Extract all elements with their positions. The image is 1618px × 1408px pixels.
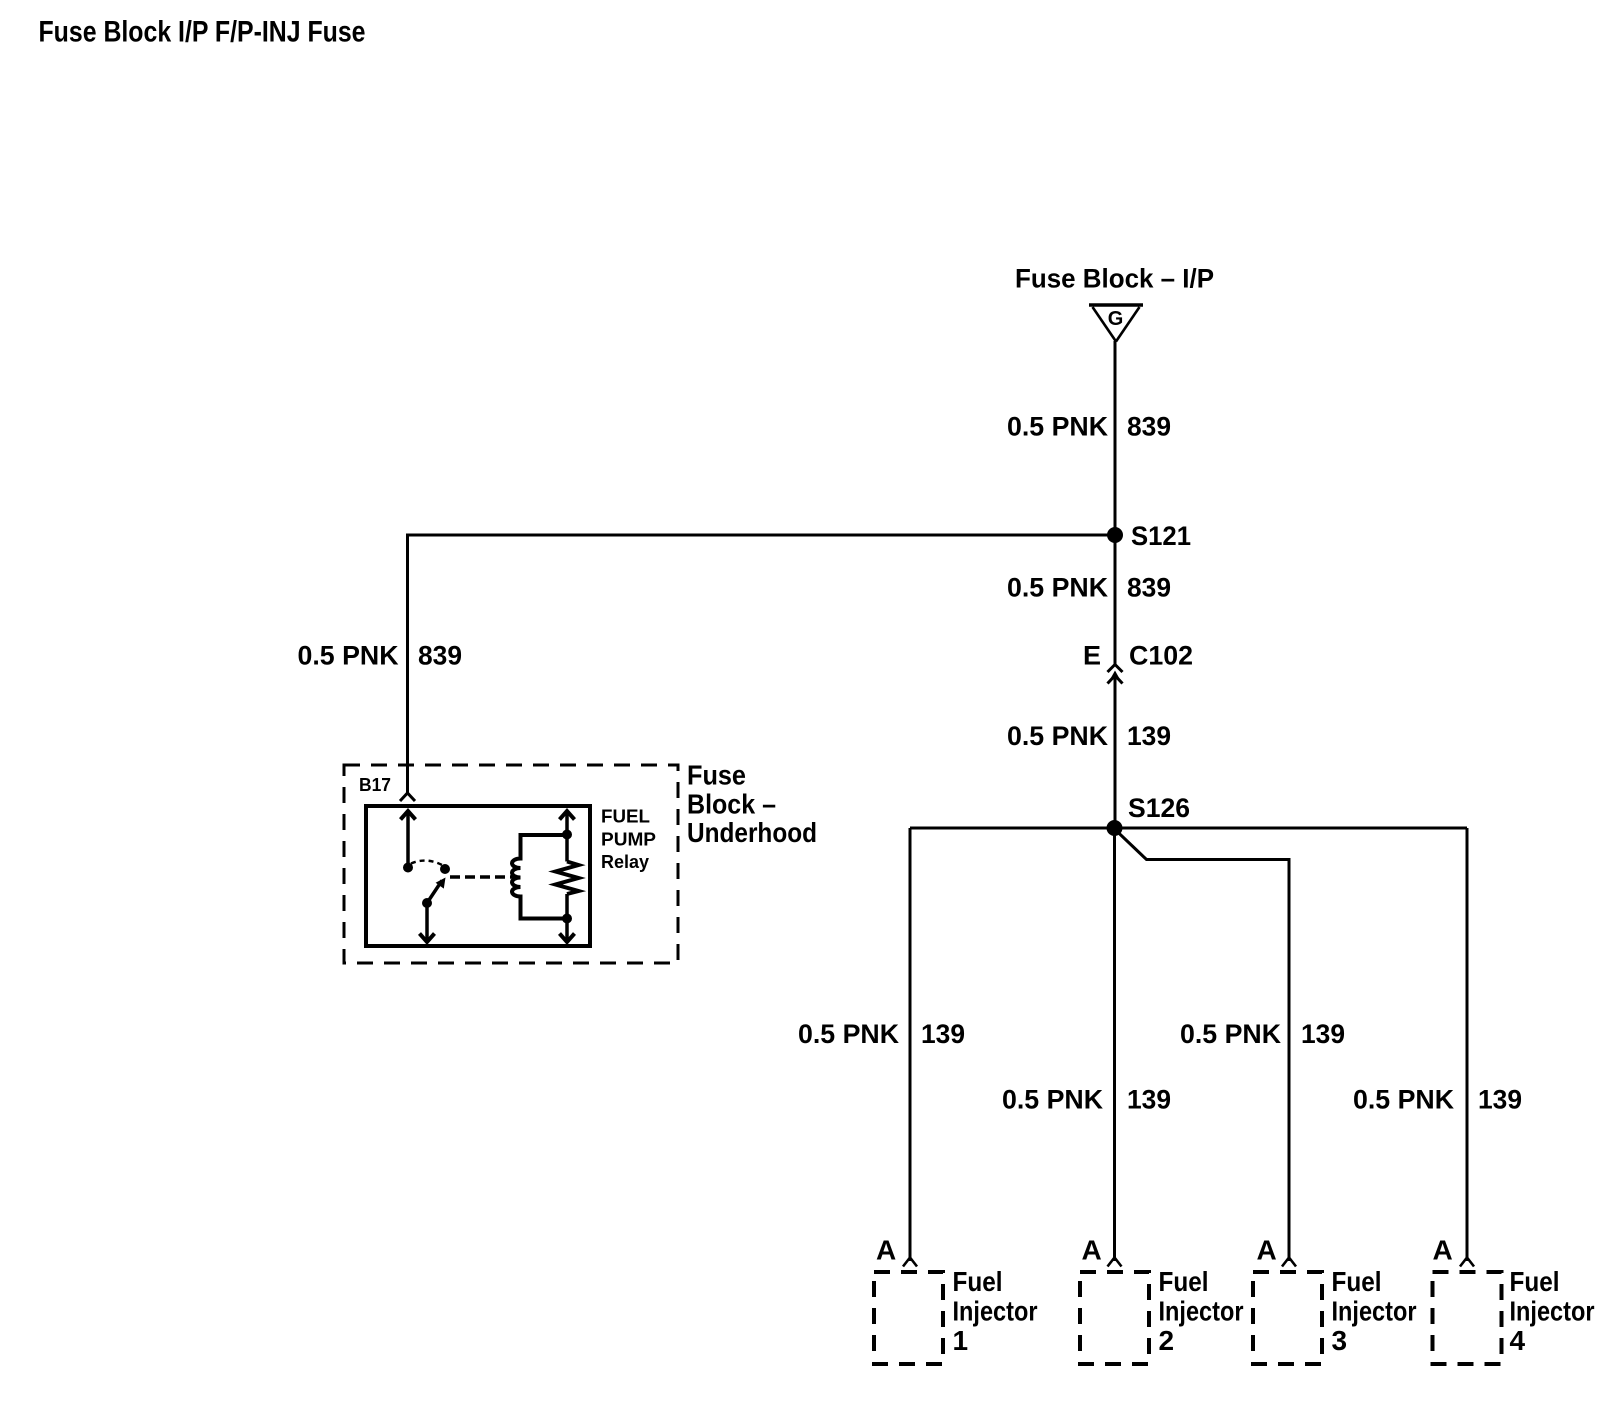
relay switch armature dashed arc: [411, 861, 444, 866]
svg-text:Injector: Injector: [1159, 1296, 1244, 1327]
fuse block underhood dashed box: [344, 765, 678, 963]
label 0.5 PNK 839 (left branch): [298, 641, 463, 671]
svg-text:0.5 PNK: 0.5 PNK: [1002, 1085, 1103, 1115]
fuel injector 4 label: [1510, 1266, 1595, 1356]
svg-text:A: A: [876, 1235, 896, 1266]
svg-text:Injector: Injector: [1510, 1296, 1595, 1327]
svg-text:Fuel: Fuel: [1159, 1266, 1209, 1297]
svg-text:139: 139: [1301, 1019, 1345, 1049]
svg-text:139: 139: [1478, 1085, 1522, 1115]
svg-text:Fuse Block – I/P: Fuse Block – I/P: [1015, 264, 1214, 294]
connector G triangle: [1089, 305, 1143, 342]
svg-text:0.5 PNK: 0.5 PNK: [1353, 1085, 1454, 1115]
fuel injector 3 dashed box: [1253, 1272, 1322, 1364]
wire from S121 left and down to fuse block underhood B17: [408, 535, 1116, 795]
svg-text:Fuel: Fuel: [1510, 1266, 1560, 1297]
fuel injector 3 label: [1332, 1266, 1417, 1356]
svg-text:0.5 PNK: 0.5 PNK: [298, 641, 399, 671]
relay coil: [512, 835, 567, 919]
svg-text:A: A: [1257, 1235, 1277, 1266]
fuel injector 1 label: [953, 1266, 1038, 1356]
wire 139 from C102 down to S126: [1114, 678, 1117, 828]
svg-text:839: 839: [418, 641, 462, 671]
svg-text:0.5 PNK: 0.5 PNK: [1007, 412, 1108, 442]
wire S121 down to connector C102: [1114, 535, 1117, 665]
relay switch lower contact: [422, 898, 432, 908]
relay coil link (dashed): [450, 875, 515, 879]
svg-text:0.5 PNK: 0.5 PNK: [1007, 573, 1108, 603]
fuel injector 2 dashed box: [1080, 1272, 1149, 1364]
relay coil node top: [562, 830, 572, 840]
relay switch common contact: [403, 863, 413, 873]
connector C102 pin E: [1083, 641, 1193, 684]
svg-text:839: 839: [1127, 573, 1171, 603]
relay switch arm with arrowhead: [427, 878, 446, 904]
wire 839 from fuse block G down to S121: [1114, 341, 1117, 535]
svg-text:A: A: [1433, 1235, 1453, 1266]
svg-text:C102: C102: [1129, 641, 1193, 671]
splice S126: [1107, 793, 1191, 836]
wire to fuel injector 3: [1115, 829, 1290, 1261]
connector chevron injector 1: [903, 1258, 917, 1267]
svg-text:Fuel: Fuel: [1332, 1266, 1382, 1297]
relay pin 87 arrow (bottom left, out of box): [420, 903, 435, 942]
svg-text:4: 4: [1510, 1325, 1526, 1356]
bus wire from S126 horizontal: [910, 827, 1467, 830]
connector chevron injector 4: [1460, 1258, 1474, 1267]
fuel pump relay solid box: [366, 806, 590, 946]
svg-text:Fuse: Fuse: [687, 760, 746, 791]
relay pin 85 arrow (bottom right): [560, 919, 575, 943]
svg-text:2: 2: [1159, 1325, 1175, 1356]
splice S121: [1107, 521, 1191, 551]
label 0.5 PNK 139 (wire 1): [798, 1019, 965, 1049]
svg-text:139: 139: [921, 1019, 965, 1049]
relay pin 30 arrow (top left, into box): [401, 811, 416, 868]
fuel injector 4 dashed box: [1433, 1272, 1502, 1364]
label 0.5 PNK 839 (upper): [1007, 412, 1171, 442]
svg-text:Block –: Block –: [687, 789, 776, 820]
fuel injector 1 dashed box: [874, 1272, 943, 1364]
svg-text:139: 139: [1127, 1085, 1171, 1115]
svg-text:Fuse Block I/P F/P-INJ Fuse: Fuse Block I/P F/P-INJ Fuse: [39, 16, 366, 49]
svg-text:A: A: [1082, 1235, 1102, 1266]
svg-text:0.5 PNK: 0.5 PNK: [798, 1019, 899, 1049]
wire to fuel injector 1: [909, 828, 912, 1261]
label 0.5 PNK 139 (wire 3): [1180, 1019, 1345, 1049]
svg-text:Relay: Relay: [601, 852, 649, 872]
label FUEL PUMP Relay: [601, 807, 656, 873]
svg-text:139: 139: [1127, 721, 1171, 751]
label Fuse Block - Underhood: [687, 760, 817, 849]
svg-text:PUMP: PUMP: [601, 830, 656, 850]
svg-text:Underhood: Underhood: [687, 817, 817, 848]
svg-text:Injector: Injector: [1332, 1296, 1417, 1327]
svg-text:0.5 PNK: 0.5 PNK: [1180, 1019, 1281, 1049]
label 0.5 PNK 139 (wire 2): [1002, 1085, 1171, 1115]
connector chevron injector 2: [1108, 1258, 1122, 1267]
wire to fuel injector 4: [1466, 828, 1469, 1261]
connector chevron injector 3: [1282, 1258, 1296, 1267]
svg-text:839: 839: [1127, 412, 1171, 442]
svg-text:Fuel: Fuel: [953, 1266, 1003, 1297]
svg-text:S121: S121: [1131, 521, 1191, 551]
svg-text:Injector: Injector: [953, 1296, 1038, 1327]
relay coil node bottom: [562, 914, 572, 924]
svg-text:G: G: [1108, 308, 1124, 330]
resistor (in parallel with coil): [556, 862, 579, 895]
relay pin 86 arrow (top right): [560, 811, 575, 862]
fuel injector 2 label: [1159, 1266, 1244, 1356]
svg-text:E: E: [1083, 641, 1101, 671]
svg-text:S126: S126: [1128, 793, 1190, 823]
connector chevron at B17: [400, 793, 415, 801]
svg-text:B17: B17: [359, 775, 391, 795]
relay switch moving contact: [440, 864, 450, 874]
label 0.5 PNK 139 (wire 4): [1353, 1085, 1522, 1115]
svg-text:3: 3: [1332, 1325, 1348, 1356]
wire resistor to bottom node: [565, 894, 569, 919]
wire to fuel injector 2: [1113, 828, 1116, 1261]
svg-text:1: 1: [953, 1325, 969, 1356]
svg-text:FUEL: FUEL: [601, 807, 650, 827]
label 0.5 PNK 139 (above S126): [1007, 721, 1171, 751]
label 0.5 PNK 839 (below S121): [1007, 573, 1171, 603]
svg-text:0.5 PNK: 0.5 PNK: [1007, 721, 1108, 751]
